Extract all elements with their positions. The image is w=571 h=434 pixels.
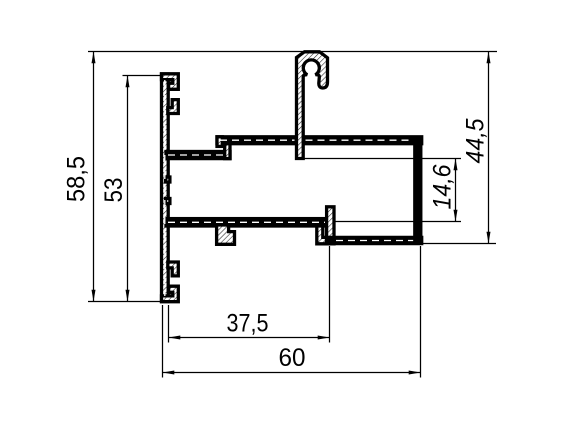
lower arm xyxy=(166,219,327,226)
dimension line 60 xyxy=(163,372,421,374)
bar nub 2 xyxy=(166,199,170,204)
extension line 53 top xyxy=(123,75,164,77)
upper arm xyxy=(166,152,230,159)
glazing-bead hook xyxy=(297,52,328,159)
separator foot xyxy=(317,226,334,244)
extension line bar-left down xyxy=(162,305,164,378)
left bar xyxy=(162,74,169,302)
top C-groove plate+wall+lip xyxy=(162,74,179,90)
svg-text:60: 60 xyxy=(279,344,306,372)
lower arm core xyxy=(168,221,325,223)
bottom-right plate core xyxy=(336,240,419,242)
extension line separator down xyxy=(329,246,331,343)
top plate left lip xyxy=(217,137,222,147)
dimension line 58,5 xyxy=(93,52,95,302)
extension line bar-right down xyxy=(168,305,170,343)
white hatch-core dashes on thin bands xyxy=(165,80,420,296)
top plate core right xyxy=(306,139,421,141)
upper arm step wall xyxy=(225,142,230,159)
svg-text:44,5: 44,5 xyxy=(462,118,490,163)
extension line 14,6 bottom xyxy=(335,221,462,223)
gasket hook under lower arm xyxy=(217,225,235,244)
extension line 44,5 bottom xyxy=(423,243,496,245)
bottom-right plate xyxy=(327,237,422,243)
top C-groove lower nub xyxy=(168,100,179,114)
bar nub 1 xyxy=(166,177,170,182)
svg-text:14,6: 14,6 xyxy=(429,164,457,209)
bottom C-groove plate+wall+lip xyxy=(162,286,179,302)
bottom C-groove upper nub xyxy=(168,262,179,276)
svg-text:58,5: 58,5 xyxy=(63,156,91,202)
extension line top shared (58,5 / 44,5) xyxy=(88,51,497,53)
top plate xyxy=(217,137,422,144)
svg-text:53: 53 xyxy=(100,178,128,203)
dimension line 14,6 xyxy=(455,159,457,222)
dimension line 53 xyxy=(127,76,129,302)
right wall (solid) xyxy=(414,137,422,244)
svg-text:37,5: 37,5 xyxy=(227,309,269,337)
extension line right-wall down xyxy=(420,246,422,378)
separator xyxy=(327,207,334,240)
extension line 14,6 top xyxy=(304,158,461,160)
upper arm core xyxy=(168,154,228,156)
top plate core left xyxy=(220,139,295,141)
extension line bottom-left (58,5 / 53) xyxy=(88,301,161,303)
dimension line 44,5 xyxy=(488,52,490,244)
left bar core xyxy=(164,80,166,296)
dimension line 37,5 xyxy=(169,337,330,339)
